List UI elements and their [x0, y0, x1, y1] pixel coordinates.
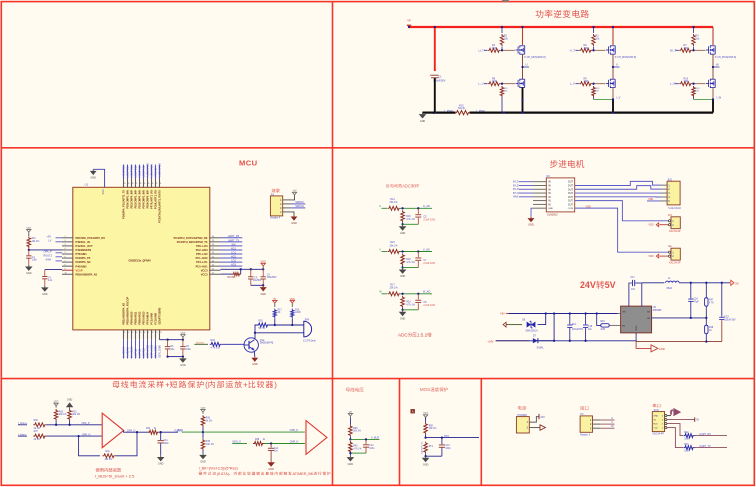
wire pin3 SWCLK	[291, 207, 305, 209]
svg-text:39: 39	[127, 183, 129, 185]
svg-text:+: +	[243, 380, 248, 389]
wire right pin row 0	[221, 237, 243, 239]
wire IN+ to opamp	[46, 424, 102, 426]
svg-text:R11: R11	[32, 238, 37, 240]
svg-text:PB0/AIN3/0PA_N1: PB0/AIN3/0PA_N1	[76, 272, 98, 276]
svg-text:R33: R33	[206, 418, 211, 420]
svg-text:I_U/A10: I_U/A10	[134, 348, 138, 358]
wire 5V pin to bar	[667, 419, 695, 421]
pin 25 (right)	[209, 257, 220, 259]
svg-text:GND: GND	[400, 318, 406, 321]
pin 23 (right)	[209, 265, 220, 267]
wire +5V output	[679, 282, 730, 284]
resistor R39 20k 1%	[349, 425, 353, 437]
svg-text:PB2/AIN5/0PA_P2/COP: PB2/AIN5/0PA_P2/COP	[126, 297, 130, 325]
svg-text:2k 1%: 2k 1%	[34, 439, 40, 441]
wire SW pin up	[641, 283, 643, 306]
svg-text:4K: 4K	[278, 312, 281, 314]
svg-text:EC1: EC1	[572, 324, 577, 326]
title 反电动势ADC采样	[386, 184, 390, 188]
svg-text:5V: 5V	[605, 280, 616, 290]
resistor R42 100R (blue)	[684, 434, 695, 438]
svg-text:2: 2	[65, 240, 66, 242]
gnd below Q12 (maroon)	[254, 357, 256, 358]
svg-text:SW: SW	[231, 243, 236, 246]
resistor R47 4.7K (box)	[705, 283, 707, 298]
comparator (red triangle)	[306, 421, 327, 455]
svg-text:VCC3: VCC3	[201, 268, 208, 272]
svg-text:PB7/AIN13: PB7/AIN13	[142, 311, 146, 324]
resistor R34 4.7K (blue)	[210, 342, 222, 346]
svg-text:I_V: I_V	[616, 96, 620, 100]
svg-text:RxD: RxD	[653, 424, 658, 426]
svg-text:I_BUS: I_BUS	[175, 428, 183, 432]
svg-text:COM: COM	[568, 208, 573, 210]
wire drain red stub	[712, 27, 714, 45]
gnd arrow (maroon, bent right)	[671, 410, 673, 414]
svg-text:24V: 24V	[540, 416, 545, 419]
svg-text:10k NTC 1%: 10k NTC 1%	[421, 441, 423, 453]
svg-text:OPA_P: OPA_P	[82, 422, 90, 425]
svg-text:CMP_P/C2: CMP_P/C2	[146, 344, 150, 358]
wire green to junction	[182, 431, 203, 433]
svg-text:5V: 5V	[696, 419, 699, 422]
svg-text:GND: GND	[636, 325, 638, 330]
power symbol above R11	[28, 232, 30, 236]
svg-text:Header 3: Header 3	[580, 433, 591, 436]
svg-text:20k 1%: 20k 1%	[390, 201, 399, 204]
power VDD above C3	[262, 266, 264, 269]
svg-text:U1: U1	[85, 183, 89, 187]
svg-text:GND: GND	[268, 468, 274, 471]
wire input	[382, 251, 388, 253]
svg-text:OUT: OUT	[568, 203, 574, 206]
gnd below C3 (maroon)	[262, 285, 264, 287]
wire collector	[254, 333, 256, 339]
svg-text:GND: GND	[90, 176, 96, 179]
svg-text:R17: R17	[278, 309, 283, 311]
wire bottom pin to caps	[160, 339, 183, 341]
svg-text:HO1/PB13: HO1/PB13	[122, 165, 126, 178]
marker A (dark red square)	[411, 409, 415, 413]
svg-text:20k 1%: 20k 1%	[59, 414, 67, 416]
wire to gnd arrow	[636, 342, 651, 349]
svg-text:IN: IN	[548, 192, 551, 195]
wire gnd to VDD pin	[93, 169, 104, 187]
capacitor C7 2.2nF	[417, 252, 419, 258]
wire CMP_P (green)	[203, 431, 305, 433]
wire OUT1 with jog	[575, 181, 661, 185]
pin 31 (top) with wire	[159, 179, 161, 188]
capacitor EC2 220uF/16V	[721, 283, 723, 317]
conn pin stub	[661, 196, 668, 198]
svg-text:SWCLK: SWCLK	[295, 205, 304, 208]
svg-text:C18: C18	[693, 299, 698, 301]
svg-text:4.7k 1%: 4.7k 1%	[406, 303, 416, 306]
pin 13 (bottom) with wire	[131, 329, 133, 339]
wire phase node vertical	[612, 54, 614, 80]
svg-text:VDT: VDT	[201, 407, 206, 410]
svg-text:NTC: NTC	[444, 435, 449, 438]
svg-text:15: 15	[139, 332, 141, 334]
svg-text:R39: R39	[353, 428, 358, 430]
svg-text:Header 4: Header 4	[270, 217, 281, 220]
sheet tab marker	[502, 0, 509, 2]
svg-text:I_W: I_W	[716, 96, 721, 100]
svg-text:ADC: ADC	[402, 183, 411, 188]
resistor R13 10k (low-side gate pull-down)	[692, 86, 695, 97]
svg-text:VDD: VDD	[261, 261, 266, 264]
svg-text:RT1: RT1	[429, 446, 434, 448]
resistor R1 10R (high-side gate series)	[488, 48, 501, 52]
wire right pin row 6	[221, 261, 243, 263]
gnd symbol (maroon)	[293, 215, 295, 217]
wire NTC out	[426, 437, 479, 439]
resistor R3 10k (high-side gate pull-up)	[592, 34, 595, 46]
title 电源	[518, 406, 522, 410]
pin 7 (left)	[62, 261, 73, 263]
svg-text:U: U	[526, 63, 528, 67]
svg-text:UART_TX: UART_TX	[699, 445, 711, 448]
svg-text:1: 1	[65, 236, 66, 238]
pin 15 (bottom) with wire	[139, 329, 141, 339]
svg-text:33: 33	[151, 183, 153, 185]
wire TxD down	[667, 428, 683, 448]
svg-text:100n/50V: 100n/50V	[267, 277, 277, 279]
svg-text:U: U	[379, 204, 381, 208]
svg-text:V_BUS: V_BUS	[371, 437, 380, 440]
regulator U9 body (grey)	[621, 306, 652, 333]
gnd below divider	[402, 310, 404, 312]
svg-text:HO2/PB15: HO2/PB15	[130, 165, 134, 178]
svg-text:R48: R48	[709, 327, 714, 329]
svg-text:GND: GND	[252, 363, 258, 366]
svg-text:LO1/PB14: LO1/PB14	[126, 165, 130, 178]
pin 32 (top) with wire	[155, 179, 157, 188]
svg-text:UART_RX: UART_RX	[699, 433, 711, 436]
mosfet Q low-side V	[608, 80, 610, 87]
pin 39 (top) with wire	[127, 179, 129, 188]
bottom rail	[496, 340, 636, 342]
svg-text:2k 1%: 2k 1%	[206, 420, 212, 422]
pin 34 (top) with wire	[147, 179, 149, 188]
gnd below C11	[160, 455, 162, 457]
conn pin stub	[661, 184, 668, 186]
svg-text:12.5*9.5mm: 12.5*9.5mm	[303, 340, 316, 343]
resistor R2 10k (high-side gate pull-up)	[500, 34, 503, 46]
svg-text:GM32E23x_QFN40: GM32E23x_QFN40	[129, 259, 152, 262]
svg-text:47pF: 47pF	[693, 301, 699, 303]
pin wire	[283, 199, 291, 201]
wire D7 to rail	[538, 314, 554, 341]
svg-text:R41: R41	[106, 451, 111, 453]
svg-text:SPK: SPK	[305, 318, 310, 321]
svg-text:HO2: HO2	[231, 255, 237, 258]
svg-text:GND: GND	[420, 120, 426, 123]
svg-text:C17: C17	[631, 277, 636, 279]
svg-text:R34: R34	[211, 339, 216, 342]
svg-text:100n: 100n	[32, 260, 38, 262]
title 功率逆变电路	[536, 10, 544, 18]
svg-text:P40/AIN2: P40/AIN2	[76, 264, 88, 268]
mosfet Q high-side V	[608, 46, 610, 53]
title 接口	[580, 406, 584, 410]
note 使用内部运放	[95, 468, 99, 472]
input rail wire	[509, 313, 618, 315]
svg-text:PF5--LO2: PF5--LO2	[196, 252, 208, 256]
svg-text:10R: 10R	[492, 80, 497, 83]
svg-text:LO2: LO2	[231, 260, 236, 263]
pin 2 (left)	[62, 241, 73, 243]
svg-text:HO3/PA11: HO3/PA11	[138, 165, 142, 178]
svg-text:20k 1%: 20k 1%	[390, 244, 399, 247]
pin circle	[665, 419, 667, 421]
svg-text:W_T: W_T	[670, 48, 676, 52]
pin wire W	[593, 427, 601, 429]
wire vcc stub to high-side pull resistor R3	[593, 27, 595, 33]
svg-text:R31: R31	[72, 411, 77, 413]
svg-text:1:5.2: 1:5.2	[417, 332, 428, 337]
mosfet Q low-side W	[708, 80, 710, 87]
vcc bus (thick red)	[409, 26, 713, 28]
wire pin4 to gnd	[291, 212, 294, 215]
svg-text:TxD: TxD	[653, 428, 657, 430]
wire IN- to opamp	[46, 435, 102, 437]
svg-text:2.2u: 2.2u	[48, 280, 53, 282]
svg-text:SS54L: SS54L	[537, 347, 545, 350]
svg-text:IN: IN	[548, 196, 551, 199]
pin 38 (top) with wire	[131, 179, 133, 188]
wire VCC3 row to caps	[221, 268, 264, 270]
svg-text:VDT: VDT	[26, 228, 31, 230]
wire OUT2 with jog	[575, 186, 661, 190]
svg-text:OUT: OUT	[568, 181, 574, 184]
svg-text:ULN2003: ULN2003	[547, 214, 558, 217]
pin 35 (top) with wire	[143, 179, 145, 188]
wire VDD to pin5	[647, 200, 661, 202]
conn pin stub	[661, 192, 668, 194]
svg-text:(6.67A): (6.67A)	[217, 472, 229, 476]
resistor R36 10K 1%	[202, 432, 204, 439]
pin circles fan	[669, 251, 671, 253]
svg-text:I_V/A11: I_V/A11	[138, 348, 142, 358]
svg-text:100R: 100R	[684, 438, 690, 440]
svg-text:4.7K 1%: 4.7K 1%	[211, 347, 221, 350]
svg-text:26: 26	[212, 252, 214, 254]
power VDT above R30	[55, 406, 57, 408]
svg-text:R37: R37	[34, 431, 39, 433]
svg-text:29: 29	[212, 240, 214, 242]
resistor R15 20k 1%	[388, 250, 401, 254]
feedback to output node	[115, 432, 137, 456]
svg-text:24: 24	[212, 260, 214, 262]
svg-text:30: 30	[212, 236, 214, 238]
pin 8 (left)	[62, 265, 73, 267]
svg-text:R16: R16	[295, 309, 300, 311]
svg-text:R40: R40	[353, 446, 358, 448]
wire gate to low-side mosfet	[692, 83, 705, 85]
wire right pin row 4	[221, 253, 243, 255]
svg-text:PC2/AIN8: PC2/AIN8	[154, 312, 158, 324]
resistor R17 20k 1%	[388, 292, 401, 296]
svg-text:CMP_N/C3: CMP_N/C3	[150, 344, 154, 358]
pin IN3 (left)	[533, 188, 547, 190]
svg-text:I_W/A12: I_W/A12	[142, 347, 146, 358]
svg-text:PF7/UART1_RX: PF7/UART1_RX	[150, 190, 154, 209]
pin IN7 (left)	[533, 203, 547, 205]
wire source to gnd bus (leg U)	[522, 87, 524, 112]
svg-text:1K: 1K	[709, 330, 712, 332]
resistor R12 10k (low-side gate pull-down)	[592, 86, 595, 97]
svg-text:PB6/AIN12: PB6/AIN12	[138, 311, 142, 324]
svg-text:2.2nF 10%: 2.2nF 10%	[423, 262, 435, 265]
wire low-side pull-down to gnd (leg U)	[501, 97, 503, 113]
svg-text:R43: R43	[684, 444, 689, 446]
svg-text:10k 1%: 10k 1%	[429, 428, 437, 430]
wire input BYJ2	[519, 184, 533, 186]
pin 3 (left)	[62, 245, 73, 247]
capacitor C3 100n	[262, 269, 264, 276]
svg-text:+5V: +5V	[292, 190, 297, 193]
svg-text:4.7K: 4.7K	[709, 302, 714, 304]
svg-text:17: 17	[147, 332, 149, 334]
svg-text:6: 6	[65, 256, 66, 258]
svg-text:VDT: VDT	[423, 412, 428, 415]
svg-text:OUT: OUT	[568, 184, 574, 187]
svg-text:10R: 10R	[584, 80, 589, 83]
svg-text:LO3/PA12: LO3/PA12	[142, 165, 146, 177]
gnd below caps	[182, 357, 184, 359]
svg-text:PB1/AIN3/0PA_N2: PB1/AIN3/0PA_N2	[122, 302, 126, 324]
pin 19 (bottom) with wire	[155, 329, 157, 339]
pin 24 (right)	[209, 261, 220, 263]
svg-text:L_W: L_W	[670, 82, 676, 86]
svg-text:220uF/16V: 220uF/16V	[724, 319, 736, 321]
wire to output label	[401, 293, 433, 295]
svg-text:5: 5	[65, 252, 66, 254]
svg-text:PD0/CMP1_INN: PD0/CMP1_INN	[126, 190, 130, 209]
wire OUT6 down to conn XS2	[575, 201, 669, 221]
wire tvs to rail	[538, 314, 546, 325]
svg-text:OPA_O/B1: OPA_O/B1	[154, 345, 158, 358]
svg-text:S8050(NPN): S8050(NPN)	[260, 342, 274, 345]
svg-text:VDT: VDT	[54, 401, 59, 404]
svg-text:PD7/0PA_PV/UART0_RX: PD7/0PA_PV/UART0_RX	[76, 236, 106, 240]
svg-text:PD4/CMP1_INN: PD4/CMP1_INN	[142, 190, 146, 209]
pin IN6 (left)	[533, 200, 547, 202]
pin wire	[283, 211, 291, 213]
wire CMP_N (green)	[264, 443, 305, 445]
svg-text:R20: R20	[259, 321, 264, 323]
svg-text:+: +	[430, 73, 432, 77]
svg-text:GD0/FT/SERB: GD0/FT/SERB	[158, 307, 162, 324]
svg-text:25: 25	[212, 256, 214, 258]
wire gate junction to mosfet	[692, 49, 705, 51]
svg-text:BYJ4: BYJ4	[513, 192, 519, 195]
wire OUT4	[575, 196, 661, 198]
svg-text:OUT: OUT	[568, 188, 574, 191]
svg-text:ATIMER_BK: ATIMER_BK	[293, 472, 314, 476]
gnd symbol under ULN2003 (maroon)	[530, 217, 532, 218]
svg-text:VDD: VDD	[648, 224, 653, 227]
capacitor C5 2.2nF	[417, 208, 419, 214]
svg-text:GND: GND	[659, 347, 665, 351]
note 硬件过流	[199, 472, 202, 475]
svg-text:MP9486: MP9486	[653, 310, 662, 312]
svg-text:4: 4	[65, 248, 66, 250]
svg-text:PD2/CMP1_INP: PD2/CMP1_INP	[134, 190, 138, 209]
wire right pin row 5	[221, 257, 243, 259]
pin 29 (right)	[209, 241, 220, 243]
capacitor C18 47pF	[690, 283, 692, 299]
svg-text:R36: R36	[206, 441, 211, 443]
wire R20 to buzzer	[269, 324, 304, 326]
svg-text:10R: 10R	[684, 47, 689, 50]
svg-text:PC3/XTH_IN/UART0/2_TX: PC3/XTH_IN/UART0/2_TX	[177, 240, 208, 244]
svg-text:MOS: MOS	[420, 387, 430, 392]
svg-text:I_BUS=5I_shunt + 2.5: I_BUS=5I_shunt + 2.5	[95, 473, 135, 478]
svg-text:27: 27	[212, 248, 214, 250]
wire source to gnd bus (leg W)	[712, 99, 714, 112]
svg-text:+: +	[165, 380, 170, 389]
uln2003 body	[546, 178, 574, 212]
svg-text:100n: 100n	[164, 443, 170, 445]
wire bottom join	[426, 455, 442, 457]
gnd below divider	[402, 224, 404, 226]
capacitor EC1 220uF/35V	[569, 314, 571, 325]
wire GND pin down	[635, 333, 637, 342]
wire vcc stub to high-side pull resistor R4	[693, 27, 695, 33]
svg-text:SMAJ26CA: SMAJ26CA	[525, 329, 538, 332]
svg-text:XA2.54-2P: XA2.54-2P	[669, 262, 681, 265]
svg-text:V_AD: V_AD	[423, 247, 430, 251]
net label phase W	[713, 66, 720, 68]
svg-text:16: 16	[143, 332, 145, 334]
svg-text:2k 1%: 2k 1%	[34, 428, 40, 430]
resistor R11 10k 1%	[27, 236, 31, 248]
svg-text:32: 32	[155, 183, 157, 185]
svg-text:GND: GND	[261, 293, 267, 296]
wire VCC3 lower row	[221, 273, 233, 275]
svg-text:PA03/PA_P0: PA03/PA_P0	[76, 256, 91, 260]
svg-text:C16: C16	[588, 326, 593, 328]
wire divider bottom	[402, 222, 404, 224]
wire to UART_TX	[695, 447, 728, 449]
svg-text:10k 1%: 10k 1%	[32, 241, 40, 243]
svg-text:PD3/CMP0_INN: PD3/CMP0_INN	[138, 190, 142, 209]
capacitor C16 22u	[585, 314, 587, 325]
pin 28 (right)	[209, 245, 220, 247]
svg-text:(: (	[205, 380, 208, 389]
svg-text:50mR: 50mR	[458, 107, 465, 110]
pin circle	[665, 423, 667, 425]
gnd below C1	[28, 265, 30, 267]
wire input	[382, 207, 388, 209]
svg-text:IN: IN	[548, 181, 551, 184]
svg-text:GND: GND	[653, 416, 658, 418]
svg-text:23: 23	[212, 264, 214, 266]
svg-text:V_T: V_T	[570, 48, 575, 52]
wire input	[382, 293, 388, 295]
svg-text:PC5/XTALIN/UART1_RX/TX: PC5/XTALIN/UART1_RX/TX	[158, 190, 162, 223]
svg-text:34: 34	[147, 183, 149, 185]
wire phase node vertical	[712, 54, 714, 80]
gnd bus (thick black) left segment	[433, 111, 456, 113]
svg-text:PD6/0PA_P1/UART1_TX: PD6/0PA_P1/UART1_TX	[122, 190, 126, 219]
pin 37 (top) with wire	[135, 179, 137, 188]
power +24V symbol	[349, 416, 351, 418]
svg-text:U: U	[611, 417, 613, 420]
